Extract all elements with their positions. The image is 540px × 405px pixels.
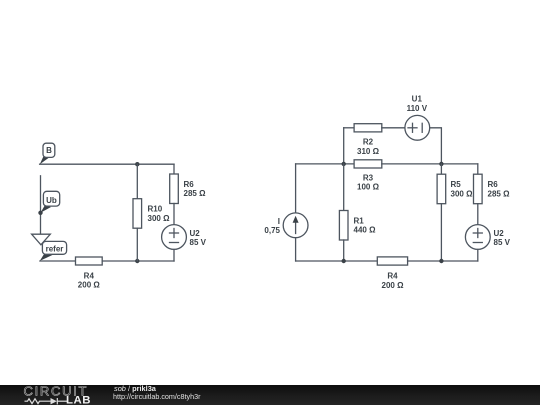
wire: bottom left horizontal bbox=[40, 260, 76, 262]
resistor R6 (left) bbox=[170, 164, 206, 224]
wire: bottom left part bbox=[296, 260, 378, 262]
svg-text:U2: U2 bbox=[190, 229, 201, 238]
svg-text:U2: U2 bbox=[494, 229, 505, 238]
svg-text:85 V: 85 V bbox=[190, 238, 207, 247]
resistor R10 bbox=[133, 164, 170, 261]
resistor R5 bbox=[437, 164, 473, 261]
junction: Ub anchor dot bbox=[38, 211, 42, 215]
svg-text:85 V: 85 V bbox=[494, 238, 511, 247]
junction dot bottom-right bbox=[439, 259, 443, 263]
svg-text:R1: R1 bbox=[354, 216, 365, 225]
wire: U1 to right corner, down bbox=[430, 128, 442, 164]
svg-text:200 Ω: 200 Ω bbox=[78, 281, 101, 290]
resistor R6 (right) bbox=[474, 164, 511, 225]
wire: middle horizontal left part bbox=[296, 163, 355, 165]
junction dot mid-right bbox=[439, 162, 443, 166]
svg-text:U1: U1 bbox=[412, 95, 423, 104]
wire: bottom right part bbox=[408, 260, 478, 262]
resistor R3 bbox=[354, 160, 382, 192]
svg-text:LAB: LAB bbox=[66, 395, 91, 405]
svg-text:R6: R6 bbox=[488, 180, 499, 189]
resistor R4 (left) bbox=[76, 257, 103, 290]
resistor R1 bbox=[339, 164, 376, 261]
junction dot mid-left bbox=[342, 162, 346, 166]
svg-text:440 Ω: 440 Ω bbox=[354, 226, 377, 235]
node Ub bbox=[41, 191, 60, 213]
voltage source U2 (right) bbox=[465, 225, 510, 261]
voltage source U2 (left) bbox=[162, 225, 207, 261]
svg-text:R4: R4 bbox=[84, 271, 95, 280]
svg-text:I: I bbox=[278, 217, 280, 226]
svg-text:R5: R5 bbox=[451, 180, 462, 189]
wire: top loop left stub bbox=[344, 127, 354, 129]
wire: bottom mid horizontal bbox=[102, 260, 174, 262]
footer bar bbox=[0, 385, 540, 405]
svg-text:300 Ω: 300 Ω bbox=[148, 214, 171, 223]
junction dot bottom bbox=[135, 259, 139, 263]
svg-text:310 Ω: 310 Ω bbox=[357, 147, 380, 156]
voltage probe Ub wire bbox=[40, 176, 42, 234]
resistor R2 bbox=[354, 124, 382, 156]
resistor R4 (right) bbox=[377, 257, 407, 290]
svg-text:200 Ω: 200 Ω bbox=[382, 281, 405, 290]
junction dot top bbox=[135, 162, 139, 166]
wire: node B top horizontal bbox=[40, 163, 174, 165]
node refer bbox=[40, 241, 67, 261]
wire: middle horizontal right part bbox=[382, 163, 478, 165]
voltage source U1 bbox=[405, 95, 430, 141]
svg-text:R10: R10 bbox=[148, 205, 163, 214]
svg-text:300 Ω: 300 Ω bbox=[451, 189, 474, 198]
junction dot bottom-left bbox=[342, 259, 346, 263]
wire: R2 to U1 bbox=[382, 127, 405, 129]
wire: top loop left vertical bbox=[343, 128, 345, 164]
svg-text:Ub: Ub bbox=[46, 196, 57, 205]
svg-text:0,75: 0,75 bbox=[264, 226, 280, 235]
probe arrow triangle bbox=[32, 234, 51, 245]
svg-text:R2: R2 bbox=[363, 138, 374, 147]
svg-text:100 Ω: 100 Ω bbox=[357, 183, 380, 192]
svg-text:110 V: 110 V bbox=[407, 104, 428, 113]
current source I bbox=[264, 164, 308, 261]
svg-text:refer: refer bbox=[46, 245, 64, 254]
CircuitLab logo bbox=[0, 385, 110, 405]
svg-text:285 Ω: 285 Ω bbox=[184, 189, 207, 198]
svg-text:R6: R6 bbox=[184, 180, 195, 189]
svg-text:285 Ω: 285 Ω bbox=[488, 189, 511, 198]
footer text bbox=[114, 385, 156, 392]
svg-text:B: B bbox=[46, 146, 52, 155]
node B bbox=[40, 143, 55, 164]
svg-text:R4: R4 bbox=[387, 272, 398, 281]
svg-text:R3: R3 bbox=[363, 173, 374, 182]
